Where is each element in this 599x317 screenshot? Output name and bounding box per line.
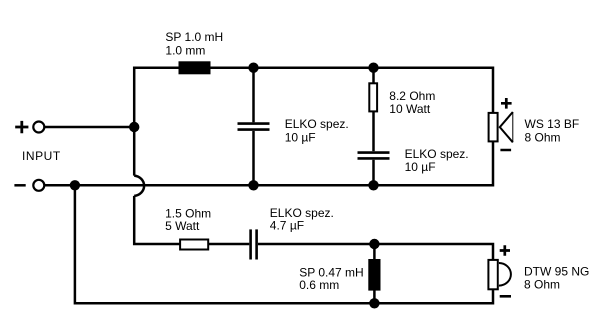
label R2 value (165, 207, 211, 234)
wire bottom branch horizontal to tweeter (209, 244, 494, 261)
svg-text:WS 13 BF: WS 13 BF (525, 117, 580, 131)
junction node L2 bottom (369, 298, 379, 308)
svg-text:ELKO spez.: ELKO spez. (405, 147, 469, 161)
svg-text:4.7 µF: 4.7 µF (270, 218, 304, 232)
wire plus rail: junction up, top rail, down to woofer (134, 68, 493, 127)
label C3 value (270, 206, 334, 232)
junction node B minus (70, 180, 80, 190)
junction node A plus-top (129, 122, 139, 132)
wire plus input to junction (45, 126, 135, 129)
speaker LS2 tweeter DTW 95 NG (488, 260, 511, 289)
label C1 value (285, 117, 349, 144)
label INPUT (22, 149, 61, 163)
svg-text:5 Watt: 5 Watt (165, 219, 200, 233)
resistor R1 8.2 Ohm (369, 83, 377, 111)
input plus sign (15, 121, 28, 133)
svg-text:8.2 Ohm: 8.2 Ohm (389, 89, 435, 103)
plus terminal LS1 (501, 98, 512, 109)
wire left vertical with hop over minus rail (134, 127, 180, 244)
label L1 value (165, 30, 223, 58)
capacitor C3 ELKO 4.7 uF (251, 229, 257, 259)
label C2 value (405, 147, 469, 174)
capacitor C1 ELKO 10 uF (238, 124, 270, 130)
minus terminal LS2 (500, 295, 511, 298)
inductor L1 SP 1.0 mH (179, 61, 211, 74)
speaker LS1 woofer WS 13 BF (489, 112, 513, 142)
junction node C1 top (248, 62, 258, 72)
label R1 value (389, 89, 435, 116)
wire inductor L2 branch (373, 244, 376, 303)
input plus terminal circle (33, 122, 44, 133)
junction node L2 top (369, 239, 379, 249)
wire minus mid rail up to woofer (45, 141, 494, 185)
minus terminal LS1 (500, 149, 511, 152)
wire minus branch down and bottom rail to tweeter (75, 185, 493, 303)
plus terminal LS2 (500, 245, 510, 255)
svg-text:8 Ohm: 8 Ohm (525, 131, 561, 145)
svg-text:10 Watt: 10 Watt (389, 102, 431, 116)
junction node C1 bottom (248, 180, 258, 190)
svg-text:10 µF: 10 µF (285, 130, 316, 144)
svg-text:INPUT: INPUT (22, 149, 61, 163)
input minus terminal circle (33, 180, 44, 191)
svg-text:8 Ohm: 8 Ohm (524, 277, 560, 291)
junction node R1 top (368, 62, 378, 72)
capacitor C2 ELKO 10 uF (358, 153, 390, 159)
junction node C2 bottom (368, 180, 378, 190)
svg-text:SP 1.0 mH: SP 1.0 mH (165, 30, 223, 44)
wire capacitor C1 branch (252, 68, 255, 186)
svg-text:DTW 95 NG: DTW 95 NG (524, 264, 589, 278)
svg-text:ELKO spez.: ELKO spez. (285, 117, 349, 131)
label LS2 (524, 264, 589, 291)
svg-text:0.6 mm: 0.6 mm (299, 278, 339, 292)
label LS1 (525, 117, 580, 144)
inductor L2 SP 0.47 mH (368, 259, 380, 291)
svg-text:10 µF: 10 µF (405, 160, 436, 174)
svg-text:1.0 mm: 1.0 mm (165, 44, 205, 58)
input minus sign (14, 184, 25, 187)
wire R1 C2 branch (372, 68, 375, 186)
resistor R2 1.5 Ohm (180, 240, 208, 250)
label L2 value (299, 265, 363, 292)
